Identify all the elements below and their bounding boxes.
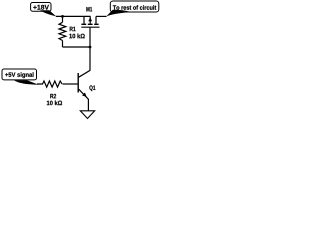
label R1 value — [69, 34, 84, 39]
flag +5V box — [2, 69, 37, 80]
label R1 — [70, 27, 76, 31]
transistor M1 body stub — [89, 16, 91, 23]
transistor M1 channel dash left — [81, 23, 86, 25]
label R2 — [50, 94, 56, 98]
resistor R2 — [37, 81, 62, 87]
transistor Q1 base bar — [77, 73, 79, 93]
flag +18V label — [33, 5, 49, 10]
wire emitter lead — [87, 99, 89, 111]
flag output tail — [106, 10, 131, 17]
label Q1 — [89, 85, 95, 91]
transistor Q1 emitter arrow — [82, 93, 87, 97]
transistor M1 drain stub — [95, 16, 97, 23]
flag +5V tail — [14, 80, 39, 84]
wire base lead — [63, 83, 78, 85]
transistor M1 gate plate — [81, 26, 99, 28]
wire +18V rail — [56, 15, 91, 17]
transistor Q1 emitter — [79, 89, 89, 99]
label M1 — [86, 7, 92, 11]
flag output label — [113, 5, 156, 10]
flag +18V tail — [40, 10, 56, 16]
transistor M1 channel dash right — [94, 23, 98, 25]
label R2 value — [47, 100, 62, 105]
resistor R1 — [59, 22, 66, 40]
wire collector — [79, 47, 90, 77]
wire R1 bottom lead — [62, 41, 64, 48]
wire node to gate — [63, 46, 91, 48]
flag +18V box — [31, 3, 51, 12]
transistor M1 body arrow — [88, 17, 92, 21]
transistor M1 source stub — [83, 16, 85, 23]
node rail-R1 junction — [61, 15, 64, 18]
node gate-collector junction — [89, 46, 92, 49]
transistor M1 channel dash middle — [88, 23, 93, 25]
flag +5V label — [5, 72, 33, 78]
wire R1 top lead — [62, 16, 64, 22]
wire gate lead — [89, 27, 91, 47]
ground — [80, 111, 94, 119]
flag output box — [110, 1, 159, 12]
wire drain to output — [96, 15, 107, 17]
